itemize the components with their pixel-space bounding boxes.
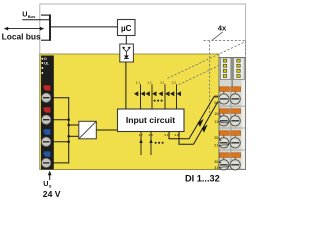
clamp blocks group 10 11 (220, 109, 241, 114)
svg-text:00: 00 (214, 94, 218, 98)
wire bus to converter upper (69, 124, 79, 126)
screw terminals group 20 21 (223, 135, 225, 142)
yellow electronics block (40, 54, 219, 170)
svg-text:2.2: 2.2 (172, 81, 177, 85)
terminal 4 blue clamp (44, 151, 51, 156)
channel status LEDs (223, 59, 240, 77)
dashed right edge (245, 41, 247, 57)
screw terminals group 00 01 (223, 91, 225, 99)
isolation symbol (123, 47, 130, 58)
svg-text:2.1: 2.1 (160, 81, 165, 85)
svg-text:21: 21 (214, 144, 218, 148)
input circuit box U2 (118, 109, 185, 132)
junction dots (68, 119, 70, 121)
local bus connector bracket (49, 14, 51, 40)
svg-text:UL: UL (44, 61, 49, 65)
svg-text:µC: µC (121, 24, 132, 33)
svg-text:1.1: 1.1 (136, 81, 141, 85)
microcontroller box uC (118, 20, 136, 36)
circuit block diagram of digital input module (0, 0, 250, 200)
svg-text:31: 31 (214, 166, 218, 170)
arrow on wire B (202, 125, 208, 133)
LED dot 4 (41, 72, 43, 74)
dashed projection lower (178, 65, 220, 85)
svg-text:01: 01 (214, 101, 218, 105)
svg-text:1.2: 1.2 (147, 81, 152, 85)
arrow on wire A (198, 119, 204, 127)
svg-text:1.7: 1.7 (139, 133, 144, 137)
terminal 3 screw (42, 137, 51, 146)
svg-text:Bus: Bus (28, 14, 36, 19)
local bus wire to uC (50, 26, 117, 28)
svg-text:10: 10 (214, 112, 218, 116)
right connector strip (219, 58, 246, 170)
label stub wires (219, 114, 231, 168)
wire terminal4 to bus (51, 162, 70, 164)
local bus double arrow (6, 28, 43, 30)
protective diode symbols (134, 92, 181, 96)
clamp blocks group 00 01 (220, 87, 241, 92)
svg-text:U: U (22, 10, 27, 19)
svg-text:4x: 4x (218, 24, 227, 33)
svg-text:Local bus: Local bus (2, 31, 41, 41)
LED indicator UL (41, 62, 43, 64)
svg-text:24 V: 24 V (43, 189, 61, 199)
wire input circuit to terminal 01 (179, 99, 231, 144)
dashed left edge (209, 41, 211, 117)
svg-text:4.0: 4.0 (174, 133, 179, 137)
terminal point labels (214, 94, 218, 170)
svg-text:2.6: 2.6 (149, 133, 154, 137)
wire uC to isolation (125, 36, 127, 45)
black terminal strip (left) (41, 56, 54, 170)
channel line 1 (140, 84, 142, 109)
input channel lines group (141, 84, 177, 109)
channel line 4 (176, 84, 178, 109)
channel labels tiny (136, 81, 177, 85)
dashed projection upper (166, 43, 244, 80)
wire terminal1 to bus (51, 97, 70, 99)
svg-text:Input circuit: Input circuit (126, 115, 175, 125)
svg-text:S: S (49, 184, 52, 189)
svg-text:3.1: 3.1 (164, 133, 169, 137)
screw terminals group 10 11 (223, 113, 225, 120)
wire terminal3 to bus (51, 141, 70, 143)
LED window right column (233, 58, 244, 80)
terminal 4 screw (42, 158, 51, 167)
continuation dots below box (155, 142, 157, 144)
terminal 2 red clamp (44, 107, 51, 112)
LED window left column (220, 58, 231, 80)
DC/DC converter (79, 121, 97, 139)
supply arrow up (49, 173, 51, 180)
LED indicator D (41, 57, 48, 74)
module housing outline (40, 4, 246, 170)
svg-text:11: 11 (214, 120, 218, 124)
svg-text:U: U (43, 179, 48, 188)
screw terminals group 30 31 (223, 157, 225, 164)
dashed group: top edge (166, 41, 246, 117)
clamp blocks group 20 21 (220, 131, 241, 136)
wire bus to converter lower (69, 135, 79, 137)
strip center conductor (230, 87, 232, 165)
terminal 1 red clamp (44, 85, 51, 90)
divider line (231, 58, 233, 87)
LED dot 3 (41, 67, 43, 69)
continuation dots above box (154, 100, 156, 102)
electrical isolation box (120, 44, 134, 62)
U_Bus wire (22, 19, 49, 21)
lower channel stubs with up arrows (141, 132, 151, 156)
terminal 2 screw (42, 115, 51, 124)
clamp blocks group 30 31 (220, 153, 241, 158)
wire isolation to input circuit (125, 62, 127, 109)
terminal 3 blue clamp (44, 129, 51, 134)
channel line 2 (151, 84, 153, 109)
terminal 1 screw (42, 93, 51, 102)
wire converter to input circuit (96, 129, 117, 131)
svg-text:30: 30 (214, 160, 218, 164)
wire input circuit to terminal 00 (169, 97, 218, 139)
svg-text:20: 20 (214, 136, 218, 140)
wire terminal2 to bus (51, 119, 70, 121)
channel line 3 (164, 84, 166, 109)
supply bus vertical wire (68, 97, 70, 163)
svg-text:DI 1...32: DI 1...32 (185, 173, 220, 183)
4x leader line (212, 32, 223, 41)
